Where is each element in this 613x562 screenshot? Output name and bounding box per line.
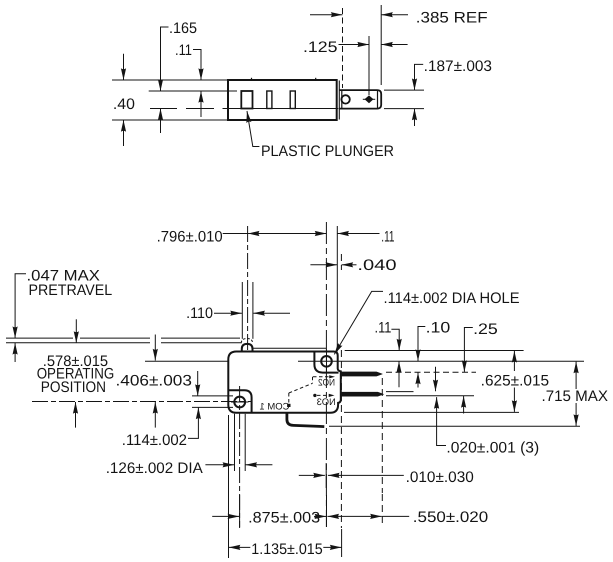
- internal contact: NO2 arrow head: [329, 375, 335, 378]
- svg-text:.625±.015: .625±.015: [481, 373, 549, 390]
- top view: body top edge tick 1: [251, 78, 253, 81]
- free position line (left): [6, 337, 240, 339]
- label PLASTIC PLUNGER leader: [247, 111, 259, 147]
- operating position line: [6, 342, 242, 344]
- top view: left extension line (body top edge): [112, 79, 228, 81]
- internal contact: dashed corner at NO2: [312, 377, 314, 384]
- terminal 2 top extension stub: [386, 391, 414, 393]
- dimension .385 REF right arrow: [381, 14, 408, 16]
- svg-text:.040: .040: [357, 257, 396, 274]
- hole 2 bottom tangent stub (left): [192, 406, 233, 408]
- extension line: hole 2 centerline solid segment at .875 row: [239, 495, 241, 527]
- side view: switch body outline: [228, 352, 340, 413]
- hole 2 horizontal centerline (left): [32, 401, 252, 403]
- dimension .11 up arrow (top view): [200, 91, 202, 117]
- extension line: plunger tip (up): [380, 5, 382, 85]
- dimension .25 leader and down arrow: [464, 328, 472, 372]
- dimension .047 leader and down arrow: [15, 274, 26, 338]
- dimension .165 up arrow: [160, 109, 162, 134]
- dimension .165 leader and down arrow: [161, 27, 169, 91]
- svg-text:PLASTIC PLUNGER: PLASTIC PLUNGER: [261, 143, 394, 160]
- dimension .40 lower arrow: [123, 120, 125, 146]
- dimension .187 up arrow: [414, 109, 416, 126]
- mounting hole 1 vertical crosshair: [326, 350, 328, 374]
- dimension .114 hole upper down arrow: [197, 371, 199, 396]
- dimension .11 right leader and down arrow: [391, 329, 399, 350]
- dimension 1.135 left arrow: [229, 546, 251, 548]
- dimension .796 leader dash: [223, 233, 249, 235]
- extension line: plunger left edge (dashed, up): [342, 8, 344, 88]
- dimension .020 down arrow: [435, 367, 437, 392]
- terminal bend extension line bottom solid: [341, 529, 343, 557]
- dimension .550 dimension line with outward arrows: [327, 515, 381, 517]
- lever arm (bent, below body): [287, 413, 324, 427]
- svg-text:.165: .165: [169, 20, 197, 37]
- dimension .126 right arrow: [245, 464, 272, 466]
- dimension .550 leader dash: [382, 515, 409, 517]
- dimension .10 up arrow: [417, 373, 419, 388]
- internal contact: dashed diagonal link: [289, 383, 313, 393]
- dimension .385 REF left arrow: [310, 14, 343, 16]
- svg-text:.010±.030: .010±.030: [406, 469, 474, 486]
- svg-text:.11: .11: [175, 42, 192, 59]
- internal contact: dashed arrow to NO2: [313, 376, 329, 378]
- extension line: lever tip / centerline solid segment at .010 row: [325, 463, 327, 488]
- svg-text:.11: .11: [375, 320, 392, 337]
- top view: switch body outline: [228, 80, 337, 120]
- svg-text:.715 MAX: .715 MAX: [542, 388, 609, 405]
- button centerline (up, dashed): [247, 226, 249, 352]
- dimension .126 left arrow: [205, 464, 234, 466]
- dimension .11 right up arrow: [398, 361, 400, 387]
- dimension .10 leader and down arrow: [418, 327, 425, 362]
- terminal 1 (NO2): [340, 372, 383, 377]
- side view: plunger button on top of body: [242, 344, 253, 352]
- svg-text:.187±.003: .187±.003: [424, 58, 492, 75]
- plunger shoulder line (right of button): [253, 347, 327, 349]
- dimension .010 left arrow: [299, 474, 325, 476]
- dimension .625 up arrow: [513, 351, 515, 371]
- side view: mounting boss around lower hole: [228, 390, 251, 413]
- svg-text:.10: .10: [426, 319, 451, 336]
- side view: mounting boss around upper hole: [314, 352, 338, 373]
- svg-text:.550±.020: .550±.020: [413, 509, 488, 526]
- svg-text:.110: .110: [186, 305, 213, 322]
- button right edge extension line (up): [252, 282, 254, 339]
- main vertical centerline through hole 1: [325, 222, 327, 527]
- svg-text:.25: .25: [473, 321, 498, 338]
- dimension .010 right arrow: [328, 474, 404, 476]
- svg-text:.114±.002 DIA HOLE: .114±.002 DIA HOLE: [384, 290, 520, 307]
- top view: plunger slot 1: [241, 91, 252, 109]
- terminal tip extension line (down): [381, 378, 383, 527]
- extension line: centerline solid segment at .550 row: [326, 495, 328, 527]
- top view: plunger left edge line: [341, 90, 343, 109]
- terminal bend extension line: [340, 254, 342, 528]
- svg-text:.40: .40: [113, 96, 135, 113]
- top view: plunger slot 2: [267, 91, 272, 109]
- mounting hole 2 (lower left) ring: [234, 397, 245, 408]
- body right edge extension line (up): [336, 226, 338, 351]
- dimension .40 upper arrow: [123, 54, 125, 80]
- svg-text:.875±.003: .875±.003: [248, 510, 320, 527]
- internal contact: dashed arrow to NO3: [317, 394, 330, 396]
- top view: plunger diamond detail: [365, 96, 372, 103]
- dimension .114 DIA HOLE leader arrow: [334, 291, 383, 354]
- button left edge extension line (up): [241, 282, 243, 339]
- dimension .187 leader and down arrow: [415, 64, 424, 90]
- dimension .110 right arrow: [253, 312, 290, 314]
- mounting post below hole 2, left edge: [234, 414, 236, 471]
- dimension .796 dimension line with outward arrows: [248, 233, 327, 235]
- mounting hole 1 (upper right) ring: [321, 356, 332, 367]
- svg-text:POSITION: POSITION: [41, 379, 106, 396]
- dimension .578 down arrow: [75, 319, 77, 343]
- terminal 1 top dashed extension: [386, 371, 476, 373]
- dimension .715 down arrow: [575, 403, 577, 426]
- hole 2 vertical centerline (down): [239, 386, 241, 528]
- svg-text:.020±.001 (3): .020±.001 (3): [446, 440, 539, 457]
- svg-text:COM 1: COM 1: [260, 402, 290, 413]
- hole 1 centerline horizontal (left of body): [145, 360, 228, 362]
- dimension .020 leader and up arrow: [437, 397, 446, 445]
- body left edge extension line (down): [228, 415, 230, 558]
- top view: left extension line (body bottom edge): [112, 119, 228, 121]
- svg-text:.125: .125: [303, 39, 338, 56]
- hole 2 top tangent stub (left): [192, 395, 233, 397]
- dimension .125 left arrow: [339, 44, 370, 46]
- svg-text:.796±.010: .796±.010: [157, 228, 223, 245]
- dimension .110 left arrow: [214, 312, 242, 314]
- top view: extension line (slot top / plunger top level): [149, 90, 237, 92]
- svg-text:.385 REF: .385 REF: [416, 10, 488, 27]
- extension line: diamond center (up): [368, 36, 370, 95]
- dimension .875 right arrow: [314, 515, 326, 517]
- mounting post below hole 2, right edge: [244, 414, 246, 471]
- top view: plunger slot 3: [290, 91, 295, 109]
- dimension .047 up arrow: [14, 343, 16, 362]
- dimension .040 right arrow: [342, 264, 357, 266]
- internal contact: NO3 arrow head: [329, 394, 335, 397]
- svg-text:PRETRAVEL: PRETRAVEL: [29, 282, 113, 299]
- top view: plunger end cap line: [377, 91, 379, 109]
- top view: line through diamond: [363, 98, 375, 100]
- dimension .406 upper down arrow (to hole 1 centerline): [154, 335, 156, 361]
- top view: body inner right edge line: [338, 81, 340, 120]
- extension line: plunger bottom (right): [384, 108, 424, 110]
- mounting hole 2 horizontal crosshair: [231, 401, 249, 403]
- dimension .125 right arrow: [381, 44, 407, 46]
- dimension .875 left arrow: [212, 515, 239, 517]
- internal contact: COM contact pad: [287, 404, 290, 407]
- dimension .25 up arrow: [463, 396, 465, 414]
- internal contact: dashed vertical to COM contact: [288, 393, 290, 404]
- top view: plunger notch circle: [341, 95, 349, 103]
- svg-text:.126±.002 DIA: .126±.002 DIA: [106, 460, 204, 477]
- dimension .715 up arrow: [575, 362, 577, 389]
- top view: plastic plunger outline: [339, 90, 381, 109]
- top view: body top edge tick 2: [315, 78, 317, 81]
- top view: internal line (plunger bottom level, full body width): [150, 108, 338, 110]
- svg-text:.11: .11: [381, 228, 394, 245]
- dimension .11 (hole to body edge) arrow: [337, 233, 379, 235]
- internal contact: NO3 pivot dot: [313, 394, 316, 397]
- side view: plunger free position outline (dashed dome): [241, 339, 252, 344]
- body top extension line (right): [345, 350, 524, 352]
- lever bottom extension line (right): [329, 425, 580, 427]
- svg-text:.406±.003: .406±.003: [116, 373, 192, 390]
- svg-text:.114±.002: .114±.002: [122, 432, 187, 449]
- terminal 2 (NO3/COM): [340, 392, 384, 397]
- dimension .625 down arrow: [513, 388, 515, 412]
- dimension .11 leader and down arrow (top view): [193, 50, 201, 81]
- dimension .040 left arrow: [310, 264, 337, 266]
- dimension .406 lower up arrow: [154, 402, 156, 428]
- body bottom extension line (right): [344, 411, 519, 413]
- hole 1 centerline horizontal (through body and right): [298, 360, 584, 362]
- dimension 1.135 right arrow: [323, 546, 341, 548]
- dimension .114 leader and up arrow: [188, 408, 198, 439]
- terminal 2 bottom extension line: [386, 395, 474, 397]
- dimension .578 up arrow: [75, 402, 77, 428]
- svg-text:1.135±.015: 1.135±.015: [251, 541, 322, 558]
- extension line: plunger top (right): [384, 89, 424, 91]
